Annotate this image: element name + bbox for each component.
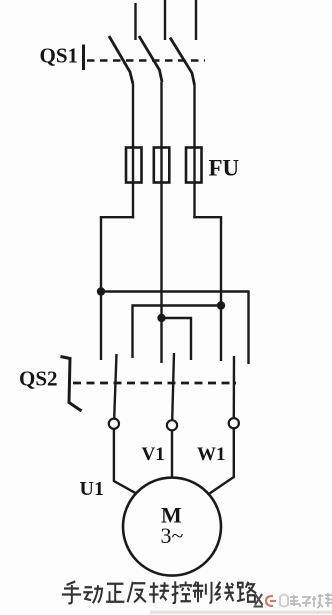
svg-text:QS1: QS1: [40, 44, 79, 68]
wire col1 fuse to jog: [132, 183, 134, 219]
fuse FU3 element wire: [193, 148, 195, 183]
motor M circle: [123, 478, 221, 576]
watermark logo dark tick: [254, 594, 264, 607]
caption char 路: [237, 582, 256, 602]
caption char 控: [172, 581, 191, 603]
junction node C dot: [217, 301, 225, 309]
wire L3 incoming top: [195, 0, 197, 40]
caption char 正: [106, 584, 124, 602]
caption 手动正反转控制线路 drawn as strokes: [62, 581, 256, 603]
wire col2 blade to fuse: [160, 82, 162, 149]
wire col3 jog right horizontal: [193, 216, 222, 218]
wire crossover H2 from node C to contact 2: [133, 306, 222, 359]
caption char 转: [149, 582, 169, 603]
motor terminal circle W1: [229, 418, 239, 428]
watermark logo red glyph: [266, 596, 276, 606]
watermark scan smear band: [150, 611, 332, 615]
wire L2 incoming top: [164, 0, 166, 40]
wire col1 jog left horizontal: [100, 216, 134, 218]
wire phase B middle vertical down to QS2 contact 3: [160, 183, 162, 364]
caption char 动: [83, 585, 102, 603]
caption char 反: [128, 582, 146, 603]
switch QS2 blade pole 3: [233, 356, 236, 418]
wire phase C vertical down to QS2 contact 5: [220, 217, 222, 361]
motor terminal circle V1: [167, 420, 177, 430]
svg-text:QS2: QS2: [19, 367, 58, 391]
wire col3 fuse to jog: [193, 183, 195, 219]
caption char 制: [193, 581, 212, 602]
switch QS2 handle: [61, 357, 82, 412]
switch QS1 linkage dashed line: [87, 59, 205, 62]
watermark 电子技术控 bottom right: [150, 593, 332, 614]
wire crossover H3 from node B to contact 4: [162, 318, 192, 360]
switch QS1 blade pole 2: [139, 36, 162, 82]
wire col3 blade to fuse: [193, 85, 195, 149]
wire col1 blade to fuse: [132, 84, 134, 149]
fuse FU2 element wire: [160, 148, 162, 183]
fuse FU1 element wire: [132, 148, 134, 183]
wire V1 terminal to motor: [171, 431, 173, 478]
svg-text:FU: FU: [209, 156, 240, 181]
svg-text:U1: U1: [80, 478, 104, 500]
caption char 线: [216, 582, 234, 602]
wire L1 incoming top: [134, 3, 136, 40]
switch QS1 handle bar: [82, 45, 85, 71]
wire U1 terminal to motor: [114, 429, 136, 494]
svg-text:3~: 3~: [161, 523, 184, 548]
wire W1 terminal to motor: [209, 428, 234, 493]
watermark logo light blob: [280, 595, 288, 607]
wire phase A vertical down to QS2 contact 1: [100, 217, 102, 360]
switch QS2 blade pole 2: [172, 353, 174, 420]
switch QS2 blade pole 1: [114, 354, 116, 418]
svg-text:V1: V1: [142, 444, 165, 465]
switch QS1 blade pole 3: [170, 38, 195, 86]
fuse FU1 body: [126, 148, 142, 183]
switch QS2 linkage dashed line: [73, 382, 236, 385]
motor terminal circle U1: [109, 419, 119, 429]
switch QS1 blade pole 1: [109, 36, 133, 84]
junction node B dot: [157, 314, 165, 322]
fuse FU2 body: [154, 148, 170, 183]
watermark text 电子技术控 approximated: [290, 593, 332, 608]
svg-text:W1: W1: [197, 444, 226, 465]
junction node A dot: [97, 287, 105, 295]
caption char 手: [62, 581, 81, 603]
wire crossover H1 from node A to contact 6: [101, 292, 249, 365]
fuse FU3 body: [186, 148, 202, 183]
